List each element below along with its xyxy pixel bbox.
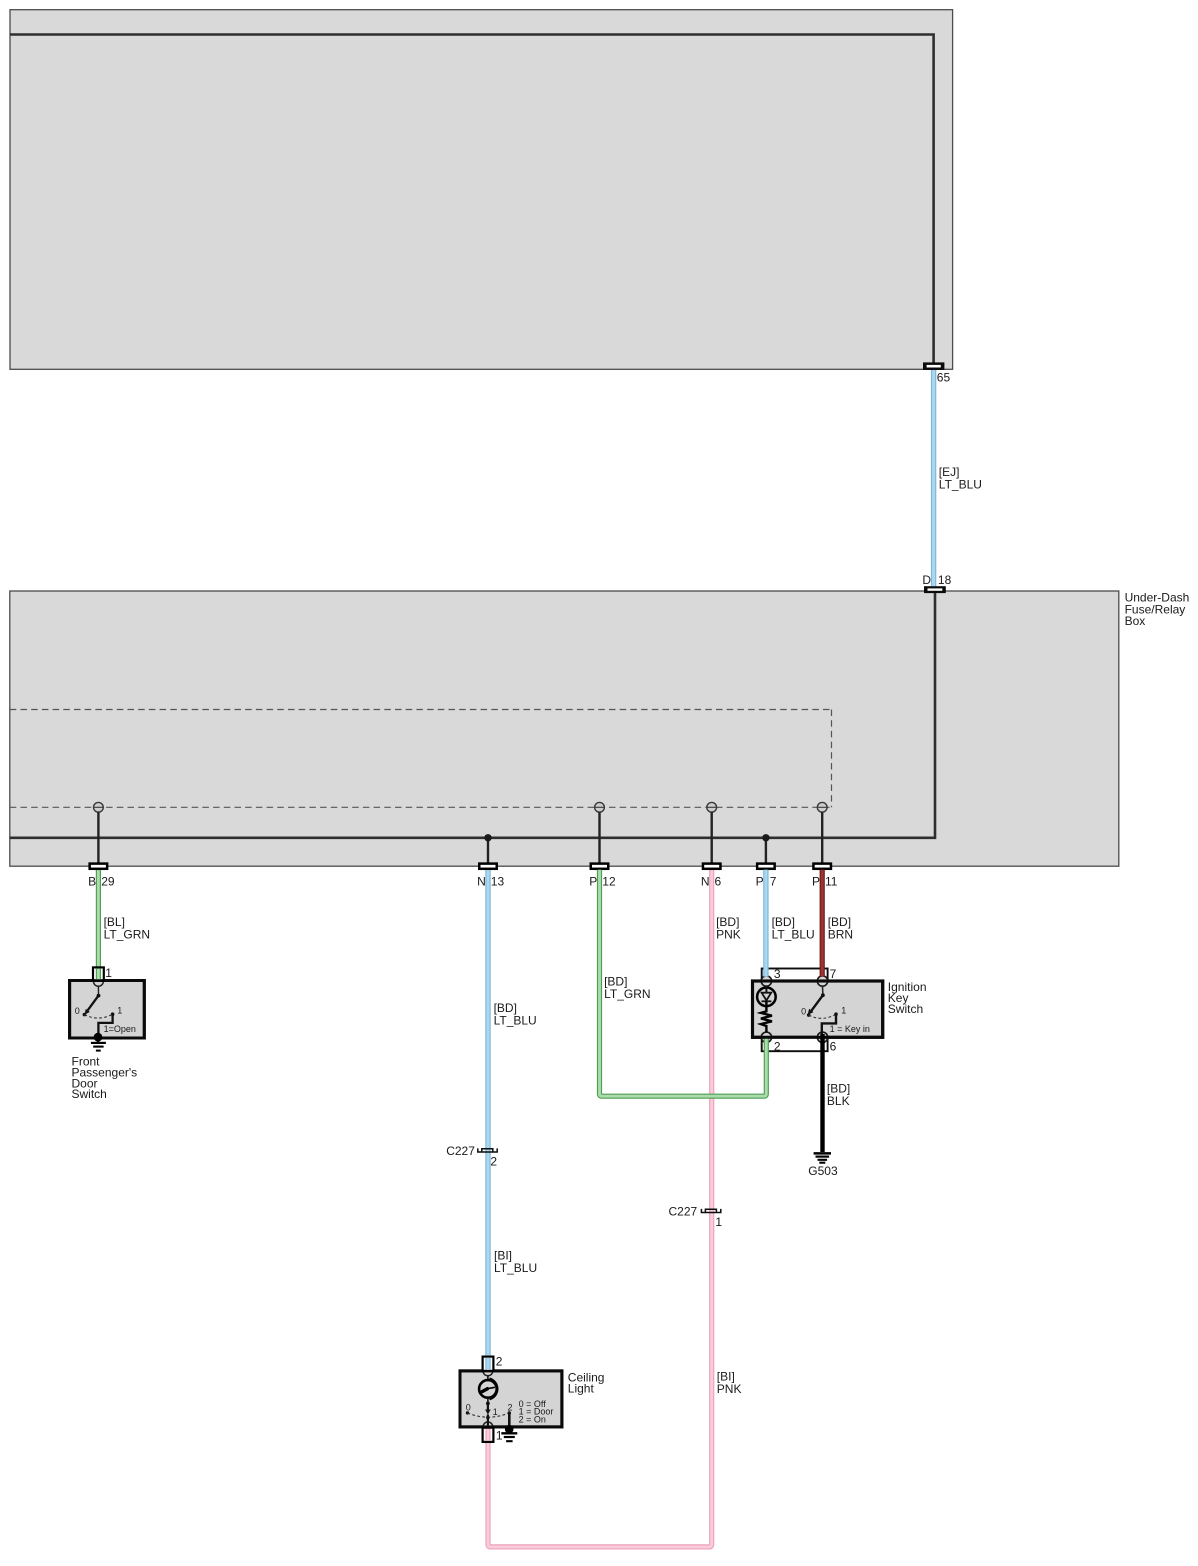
- connector B 29: [90, 864, 108, 869]
- pin stub N 13: [487, 838, 489, 866]
- svg-text:C227: C227: [446, 1144, 475, 1158]
- svg-text:12: 12: [602, 874, 616, 888]
- svg-text:N: N: [701, 874, 710, 888]
- svg-text:65: 65: [937, 371, 951, 385]
- svg-text:0: 0: [801, 1006, 806, 1016]
- svg-text:P: P: [812, 874, 820, 888]
- ceiling light bulb-to-switch stub: [487, 1398, 489, 1404]
- door switch arm with arrowhead: [88, 996, 99, 1011]
- svg-text:1: 1: [841, 1006, 846, 1016]
- svg-text:0: 0: [75, 1006, 80, 1016]
- ceiling switch position 2 dot: [508, 1411, 511, 1414]
- ignition lamp resistor: [761, 1001, 772, 1032]
- svg-text:2: 2: [774, 1040, 781, 1054]
- dashed internal block outline: [10, 709, 832, 711]
- svg-text:LT_BLU: LT_BLU: [494, 1014, 537, 1028]
- svg-text:PNK: PNK: [716, 928, 741, 942]
- svg-text:18: 18: [938, 573, 952, 587]
- svg-text:G503: G503: [808, 1164, 838, 1178]
- svg-text:BRN: BRN: [828, 928, 853, 942]
- svg-text:BLK: BLK: [827, 1094, 850, 1108]
- svg-text:1 = Key in: 1 = Key in: [830, 1024, 870, 1034]
- svg-text:Switch: Switch: [72, 1087, 107, 1101]
- svg-text:LT_BLU: LT_BLU: [494, 1261, 537, 1275]
- svg-text:1: 1: [715, 1215, 722, 1229]
- wire [BD]/[BI] PNK from N 6 through C227 pin 1 looping to ceiling light pin 1: [488, 870, 712, 1547]
- ceiling switch arm with arrowhead (position 1): [487, 1403, 489, 1410]
- svg-text:7: 7: [770, 874, 777, 888]
- ceiling light box border over pins: [460, 1371, 562, 1427]
- svg-text:N: N: [477, 874, 486, 888]
- ceiling light box: [460, 1371, 562, 1427]
- ceiling switch position 0 dot: [466, 1411, 469, 1414]
- svg-text:13: 13: [491, 874, 505, 888]
- ignition key switch top pin bracket: [762, 969, 828, 982]
- ignition pin 2 circle: [761, 1032, 771, 1042]
- door switch box border over pin: [70, 981, 145, 1039]
- svg-text:2: 2: [496, 1355, 503, 1369]
- junction dot at P 7: [762, 834, 769, 841]
- ignition switch arm with arrowhead: [811, 995, 823, 1011]
- ceiling light pin 1 terminal: [483, 1428, 494, 1442]
- svg-text:LT_BLU: LT_BLU: [939, 478, 982, 492]
- connector D 18: [924, 586, 946, 593]
- wire (internal bus) from left edge to D 18: [10, 593, 935, 838]
- svg-text:Light: Light: [568, 1382, 595, 1396]
- ignition dashed travel arc: [809, 1014, 836, 1018]
- svg-text:2: 2: [507, 1402, 512, 1412]
- wire [BD] LT_BLU segment into pin 3: [763, 870, 768, 977]
- inline connector C227 pin 2 (on LT_BLU): [478, 1148, 497, 1152]
- wire [BD] BRN from P 11 to pin 7: [820, 870, 825, 977]
- ceiling switch position 1 dot: [486, 1416, 490, 1420]
- pin 65 connector: [923, 362, 944, 370]
- svg-text:29: 29: [101, 874, 115, 888]
- door switch internal stub: [97, 986, 99, 995]
- pin stub P 11: [821, 812, 823, 866]
- connector P 12: [591, 864, 609, 869]
- wire [EJ] LT_BLU from pin 65 to D 18: [931, 370, 936, 586]
- pin stub P 12: [598, 812, 600, 866]
- ignition contact path to pin 6: [822, 1014, 836, 1034]
- svg-text:7: 7: [830, 967, 837, 981]
- door switch contact path to ground: [98, 1014, 112, 1033]
- svg-text:P: P: [756, 874, 764, 888]
- svg-text:D: D: [922, 573, 931, 587]
- svg-text:11: 11: [825, 874, 838, 888]
- svg-text:1: 1: [105, 966, 112, 980]
- ignition pin 7 circle: [817, 976, 827, 986]
- svg-text:Switch: Switch: [888, 1002, 923, 1016]
- svg-text:6: 6: [715, 874, 722, 888]
- ceiling switch pivot dot: [486, 1402, 490, 1406]
- door switch position 0 dot: [83, 1013, 87, 1017]
- fuse box A (top, cropped component box): [10, 10, 953, 370]
- ground at ceiling light case: [505, 1425, 514, 1434]
- wire (internal bus) from left edge to pin 65: [10, 35, 934, 364]
- front passenger's door switch pin 1 terminal: [93, 967, 104, 980]
- ignition key-in indicator lamp: [757, 988, 776, 1007]
- Under-Dash Fuse/Relay Box: [10, 591, 1119, 866]
- ignition key switch box: [753, 981, 883, 1037]
- internal connector circle above P 12: [595, 802, 605, 812]
- svg-text:PNK: PNK: [717, 1382, 742, 1396]
- svg-text:6: 6: [830, 1040, 837, 1054]
- svg-text:P: P: [589, 874, 597, 888]
- connector P 11: [813, 864, 831, 869]
- ignition key switch bottom pin bracket: [762, 1037, 828, 1051]
- door switch pin 1 circle: [94, 977, 104, 987]
- internal connector circle above B 29: [94, 802, 104, 812]
- pin stub N 6: [711, 812, 713, 866]
- wire [BL] LT_GRN from B 29 to door switch: [96, 870, 101, 981]
- ceiling switch dashed travel arc: [468, 1413, 510, 1417]
- wire [BD] LT_GRN from P 12 to pin 2: [600, 870, 767, 1096]
- internal connector circle above N 6: [707, 802, 717, 812]
- svg-text:LT_GRN: LT_GRN: [104, 928, 150, 942]
- door switch position 1 dot: [111, 1012, 115, 1016]
- svg-text:2 = On: 2 = On: [519, 1414, 546, 1424]
- pin stub P 7: [765, 838, 767, 866]
- svg-text:1: 1: [117, 1005, 122, 1015]
- front passenger's door switch box: [70, 981, 145, 1039]
- svg-text:0: 0: [466, 1402, 471, 1412]
- svg-text:1=Open: 1=Open: [104, 1024, 136, 1034]
- door switch case ground dot: [94, 1033, 103, 1042]
- wire [BD] BLK from pin 6 to G503: [820, 1034, 824, 1152]
- svg-text:2: 2: [490, 1154, 497, 1168]
- ignition key switch box border over pins: [753, 981, 883, 1037]
- pin stub B 29: [97, 812, 99, 866]
- connector P 7: [757, 864, 775, 869]
- ceiling light pin 1 circle: [483, 1422, 493, 1432]
- svg-text:B: B: [88, 874, 96, 888]
- inline connector C227 pin 1 (on PNK): [701, 1209, 720, 1213]
- junction dot at N 13: [484, 834, 491, 841]
- svg-text:1: 1: [496, 1428, 503, 1442]
- ignition switch pivot dot: [821, 993, 825, 997]
- ignition pin 3 circle: [761, 976, 771, 986]
- ceiling switch position 2 to case ground: [508, 1413, 511, 1428]
- svg-text:C227: C227: [669, 1204, 698, 1218]
- door switch pivot dot: [97, 994, 101, 998]
- wire [BD]/[BI] LT_BLU from N 13 through C227 pin 2 to ceiling light: [485, 870, 490, 1370]
- ceiling light pin 2 terminal: [483, 1357, 494, 1371]
- ceiling light pin 2 circle: [483, 1366, 493, 1376]
- svg-text:LT_GRN: LT_GRN: [604, 987, 650, 1001]
- ignition switch stub from pin 7: [822, 986, 824, 995]
- ground below door switch: [97, 1037, 99, 1043]
- connector N 13: [479, 864, 497, 869]
- connector N 6: [703, 864, 721, 869]
- ground G503: [814, 1152, 831, 1155]
- internal connector circle above P 11: [817, 802, 827, 812]
- door switch dashed travel arc: [84, 1014, 112, 1018]
- ignition position 1 dot: [834, 1012, 838, 1016]
- ceiling switch contact to pin 1: [487, 1415, 489, 1427]
- svg-text:Box: Box: [1125, 614, 1146, 628]
- ignition pin 6 circle: [817, 1032, 827, 1042]
- svg-text:LT_BLU: LT_BLU: [772, 928, 815, 942]
- svg-text:3: 3: [774, 967, 781, 981]
- ignition position 0 dot: [807, 1013, 811, 1017]
- svg-text:1: 1: [493, 1407, 498, 1417]
- ceiling light bulb: [487, 1376, 489, 1385]
